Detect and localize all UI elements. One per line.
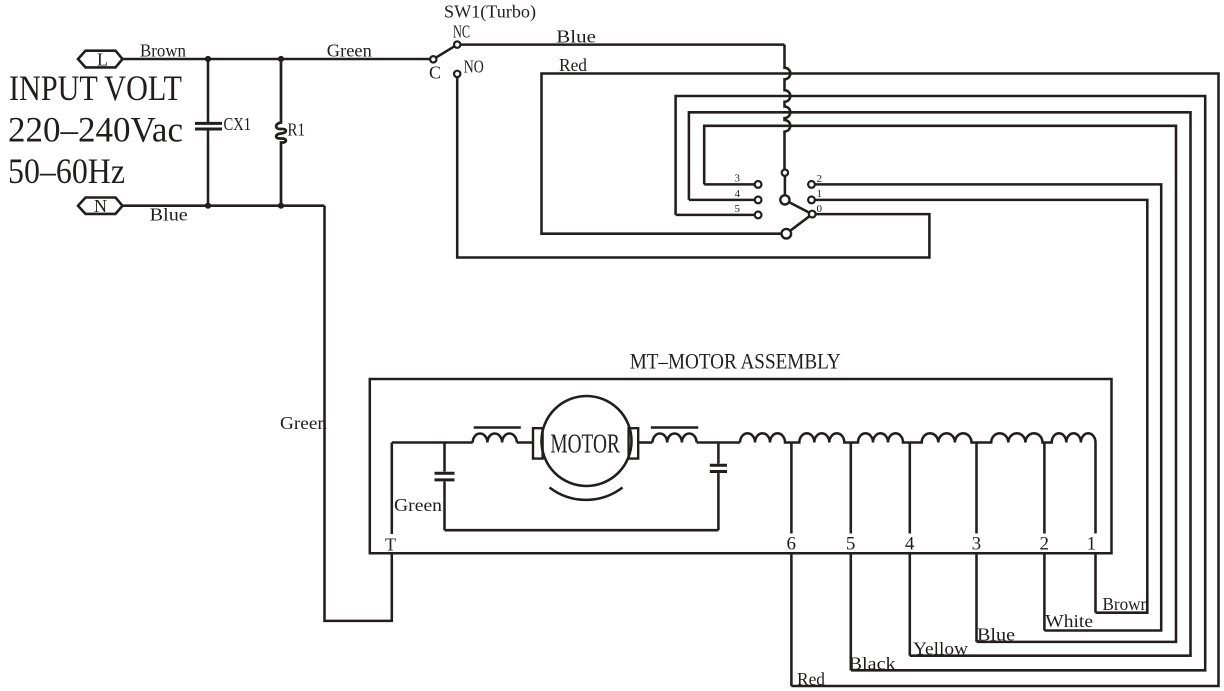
svg-text:Blue: Blue bbox=[150, 205, 188, 225]
svg-text:Black: Black bbox=[849, 654, 896, 674]
svg-text:Green: Green bbox=[280, 413, 327, 433]
svg-text:NO: NO bbox=[464, 57, 484, 77]
svg-text:3: 3 bbox=[735, 173, 741, 185]
wire row4 top (Yellow net) bbox=[689, 112, 1191, 655]
rotary switch arm bottom-0 bbox=[790, 216, 809, 231]
svg-text:T: T bbox=[385, 535, 396, 555]
wire tap2 lower vertical bbox=[1043, 553, 1046, 630]
brush left bbox=[533, 428, 543, 458]
svg-text:Red: Red bbox=[559, 55, 587, 75]
rotary contact 3 bbox=[755, 181, 762, 188]
svg-text:1: 1 bbox=[1087, 534, 1097, 555]
rotary contact 1 bbox=[808, 197, 815, 204]
svg-text:Yellow: Yellow bbox=[913, 639, 968, 659]
wire Red loop bbox=[542, 74, 1219, 687]
svg-text:220–240Vac: 220–240Vac bbox=[8, 110, 183, 150]
svg-text:R1: R1 bbox=[288, 120, 306, 140]
motor M1 bbox=[542, 396, 632, 486]
svg-text:C: C bbox=[429, 63, 441, 83]
svg-text:NC: NC bbox=[453, 22, 470, 42]
svg-text:6: 6 bbox=[787, 534, 797, 555]
rotary switch pole link bbox=[784, 176, 787, 195]
wire tap2 upper bbox=[1043, 443, 1046, 534]
winding group 4-seg bbox=[851, 433, 910, 442]
svg-text:2: 2 bbox=[1040, 534, 1050, 555]
junction dot CX1-N bbox=[205, 203, 211, 209]
svg-text:4: 4 bbox=[905, 534, 915, 555]
winding group 5-seg bbox=[791, 433, 850, 442]
terminal L bbox=[78, 50, 123, 70]
svg-text:CX1: CX1 bbox=[224, 114, 252, 134]
svg-text:2: 2 bbox=[817, 173, 823, 185]
field coil left bbox=[473, 428, 521, 443]
rotary switch arm rotor-0 bbox=[789, 202, 809, 213]
wire contact2 to tap2 (White net) bbox=[815, 184, 1161, 630]
wire brush to coil bbox=[638, 441, 652, 444]
junction dot R1-N bbox=[278, 203, 284, 209]
wire tap6 upper bbox=[790, 443, 793, 534]
wire N line (Blue) bbox=[123, 204, 325, 207]
wire row3 top (Blue net) bbox=[704, 126, 1176, 642]
wire T tap upper bbox=[391, 443, 394, 535]
rotary contact 4 bbox=[755, 197, 762, 204]
junction dot R1-L bbox=[278, 56, 284, 62]
svg-text:L: L bbox=[97, 50, 108, 70]
wire tap4 lower vertical bbox=[909, 553, 912, 655]
winding group 6-seg bbox=[740, 433, 791, 442]
svg-text:4: 4 bbox=[735, 188, 741, 200]
wire tap1 upper bbox=[1094, 443, 1097, 534]
switch SW1 arm C-NC bbox=[436, 46, 455, 57]
wire row5 top (Black net) bbox=[676, 96, 1206, 670]
svg-text:SW1(Turbo): SW1(Turbo) bbox=[444, 2, 536, 23]
resistor R1 bbox=[276, 59, 305, 206]
svg-text:Green: Green bbox=[327, 41, 372, 61]
svg-text:MT–MOTOR ASSEMBLY: MT–MOTOR ASSEMBLY bbox=[630, 349, 841, 374]
svg-text:Blue: Blue bbox=[977, 625, 1015, 645]
capacitor motor left bbox=[435, 443, 455, 531]
svg-text:5: 5 bbox=[846, 534, 856, 555]
switch SW1 common contact C bbox=[430, 56, 436, 62]
svg-text:Green: Green bbox=[394, 495, 442, 515]
svg-text:0: 0 bbox=[817, 203, 823, 215]
winding group 2-seg bbox=[977, 433, 1045, 442]
motor assembly box bbox=[370, 379, 1112, 553]
capacitor CX1 bbox=[195, 59, 251, 206]
svg-text:1: 1 bbox=[817, 188, 823, 200]
svg-text:5: 5 bbox=[735, 203, 741, 215]
svg-text:White: White bbox=[1045, 611, 1093, 631]
wire L line (Brown/Green) bbox=[123, 58, 431, 61]
rotary contact 5 bbox=[755, 212, 762, 219]
wire tap3 lower vertical bbox=[975, 553, 978, 642]
rotary contact 0 bbox=[809, 211, 816, 218]
wire tap5 upper bbox=[850, 443, 853, 534]
wire tap6 lower vertical bbox=[790, 553, 793, 686]
wire tap1 lower vertical bbox=[1094, 553, 1097, 612]
junction dot CX1-L bbox=[205, 56, 211, 62]
winding group 3-seg bbox=[910, 433, 977, 442]
capacitor motor right bbox=[710, 443, 727, 531]
rotary switch rotor bbox=[780, 195, 789, 204]
svg-text:Brown: Brown bbox=[1103, 594, 1150, 614]
wire contact4 stub bbox=[689, 199, 755, 202]
rotary switch bottom terminal bbox=[782, 229, 792, 239]
motor housing arc bbox=[550, 488, 623, 500]
wire Blue from NC bbox=[460, 43, 784, 46]
svg-text:INPUT VOLT: INPUT VOLT bbox=[9, 68, 182, 108]
svg-text:Red: Red bbox=[797, 669, 825, 689]
svg-text:50–60Hz: 50–60Hz bbox=[8, 151, 125, 191]
wire contact5 stub bbox=[676, 214, 755, 217]
terminal N bbox=[78, 196, 123, 216]
wire tap5 lower vertical bbox=[850, 553, 853, 670]
wire contact3 stub bbox=[704, 183, 755, 186]
svg-text:N: N bbox=[94, 196, 107, 216]
wire tap4 upper bbox=[909, 443, 912, 534]
svg-text:Blue: Blue bbox=[556, 27, 596, 47]
wire coil to brush bbox=[517, 441, 533, 444]
wire NO vertical + bottom run to contact 0 bbox=[457, 77, 929, 257]
wire green earth run bbox=[325, 206, 392, 621]
wire motor main line left bbox=[392, 441, 473, 444]
svg-text:MOTOR: MOTOR bbox=[550, 429, 620, 459]
wire blue vertical with hops bbox=[785, 45, 791, 170]
field coil right bbox=[651, 428, 699, 443]
winding group 1-seg bbox=[1044, 433, 1095, 442]
switch SW1 contact NO bbox=[454, 71, 460, 77]
wire tap3 upper bbox=[975, 443, 978, 534]
rotary switch pole terminal bbox=[782, 170, 788, 176]
rotary contact 2 bbox=[808, 181, 815, 188]
svg-text:3: 3 bbox=[972, 534, 982, 555]
wire contact1 to tap1 (Brown net) bbox=[815, 200, 1147, 613]
brush right bbox=[629, 428, 639, 458]
switch SW1 contact NC bbox=[454, 41, 460, 47]
wire coil to winding bbox=[697, 441, 740, 444]
svg-text:Brown: Brown bbox=[140, 41, 186, 61]
wire motor bottom run bbox=[445, 529, 719, 532]
